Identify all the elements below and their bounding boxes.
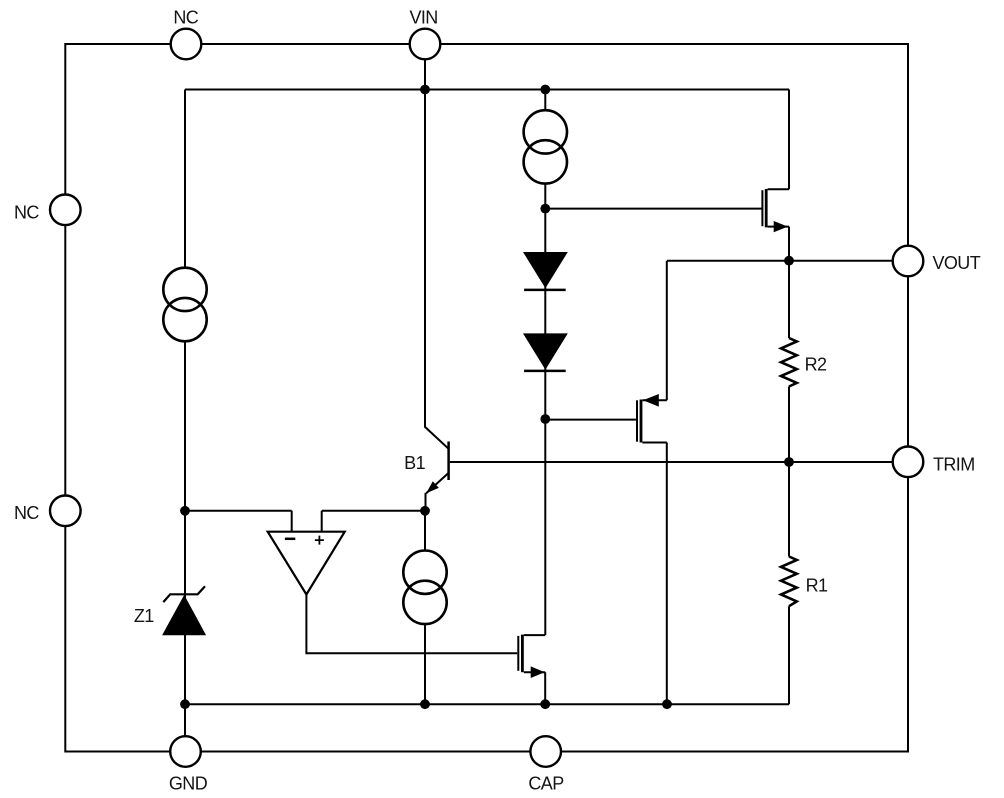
svg-text:GND: GND	[169, 774, 208, 794]
svg-text:VOUT: VOUT	[933, 253, 981, 273]
svg-text:R1: R1	[806, 575, 828, 595]
svg-text:CAP: CAP	[528, 774, 564, 794]
svg-text:NC: NC	[173, 7, 198, 27]
svg-text:B1: B1	[404, 453, 425, 473]
svg-text:NC: NC	[14, 503, 39, 523]
svg-text:VIN: VIN	[409, 7, 437, 27]
svg-text:TRIM: TRIM	[933, 455, 975, 475]
svg-text:NC: NC	[14, 202, 39, 222]
svg-text:Z1: Z1	[134, 606, 154, 626]
svg-text:R2: R2	[805, 354, 827, 374]
